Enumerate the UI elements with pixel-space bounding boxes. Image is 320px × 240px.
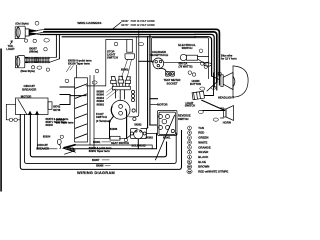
svg-text:HEADLIGHT: HEADLIGHT (218, 95, 234, 99)
svg-text:RED: RED (198, 131, 204, 135)
svg-text:8X957: 8X957 (92, 158, 100, 162)
svg-text:GREEN: GREEN (198, 136, 208, 140)
svg-text:8X108 Taper term: 8X108 Taper term (68, 62, 90, 66)
svg-text:(78 WATTS): (78 WATTS) (179, 65, 193, 69)
svg-text:8X988: 8X988 (110, 127, 118, 131)
svg-text:WIRE HARNESS: WIRE HARNESS (77, 21, 101, 25)
svg-text:8X961: 8X961 (93, 140, 101, 144)
svg-text:SWITCH: SWITCH (107, 55, 118, 59)
svg-text:8X9 Taper term: 8X9 Taper term (56, 121, 74, 124)
svg-text:8X748: 8X748 (53, 109, 61, 112)
svg-text:W: W (189, 142, 191, 144)
svg-text:SOCKET: SOCKET (166, 81, 177, 85)
svg-text:ORANGE: ORANGE (198, 145, 211, 149)
svg-text:RW: RW (188, 171, 191, 173)
svg-text:SWITCH: SWITCH (178, 117, 189, 121)
svg-text:8X934: 8X934 (43, 135, 51, 139)
svg-text:8X981 Taper term: 8X981 Taper term (89, 149, 111, 153)
svg-text:BROWN: BROWN (198, 165, 209, 169)
svg-text:BUTTON: BUTTON (190, 82, 201, 86)
svg-text:SWITCH: SWITCH (182, 46, 193, 50)
svg-text:8X982: 8X982 (146, 136, 154, 140)
svg-text:MOTOR: MOTOR (157, 103, 167, 107)
svg-text:SILVER: SILVER (198, 150, 208, 154)
svg-text:BREAKER: BREAKER (36, 147, 49, 151)
svg-text:8X966: 8X966 (96, 164, 104, 168)
svg-text:SWITCH: SWITCH (96, 115, 107, 119)
svg-text:for 12 V horn: for 12 V horn (221, 57, 237, 61)
svg-text:8X747 FOR 12 VOLT HORN: 8X747 FOR 12 VOLT HORN (121, 24, 154, 27)
svg-text:BREAKER: BREAKER (22, 88, 36, 92)
svg-text:8X940: 8X940 (46, 123, 54, 127)
svg-text:RED w/WHITE STRIPE: RED w/WHITE STRIPE (198, 170, 228, 174)
svg-text:BLACK: BLACK (198, 155, 209, 159)
svg-text:LIGHT: LIGHT (6, 47, 15, 51)
svg-text:(3 Terminal): (3 Terminal) (96, 119, 111, 123)
svg-text:SOLENOID: SOLENOID (131, 143, 145, 147)
svg-text:TAN: TAN (198, 126, 204, 130)
svg-text:MOTOR: MOTOR (21, 95, 32, 99)
svg-text:HORN: HORN (223, 121, 231, 125)
svg-text:BL: BL (188, 162, 190, 164)
svg-text:WHITE: WHITE (198, 140, 207, 144)
svg-text:8X961: 8X961 (163, 136, 171, 140)
svg-text:SWITCH: SWITCH (185, 104, 196, 108)
svg-text:8X637 FOR 18 VOLT HORN: 8X637 FOR 18 VOLT HORN (121, 20, 154, 23)
svg-text:(Old Style): (Old Style) (15, 22, 28, 26)
svg-text:WIRING DIAGRAM: WIRING DIAGRAM (77, 170, 115, 175)
svg-text:8X962: 8X962 (97, 102, 105, 106)
svg-text:RECEPTACLE: RECEPTACLE (150, 53, 169, 57)
svg-text:(White): (White) (29, 50, 38, 54)
svg-text:(New Style): (New Style) (21, 69, 35, 73)
svg-text:8X952: 8X952 (121, 68, 129, 72)
svg-text:8X962: 8X962 (134, 123, 142, 126)
svg-text:BLUE: BLUE (198, 160, 206, 164)
